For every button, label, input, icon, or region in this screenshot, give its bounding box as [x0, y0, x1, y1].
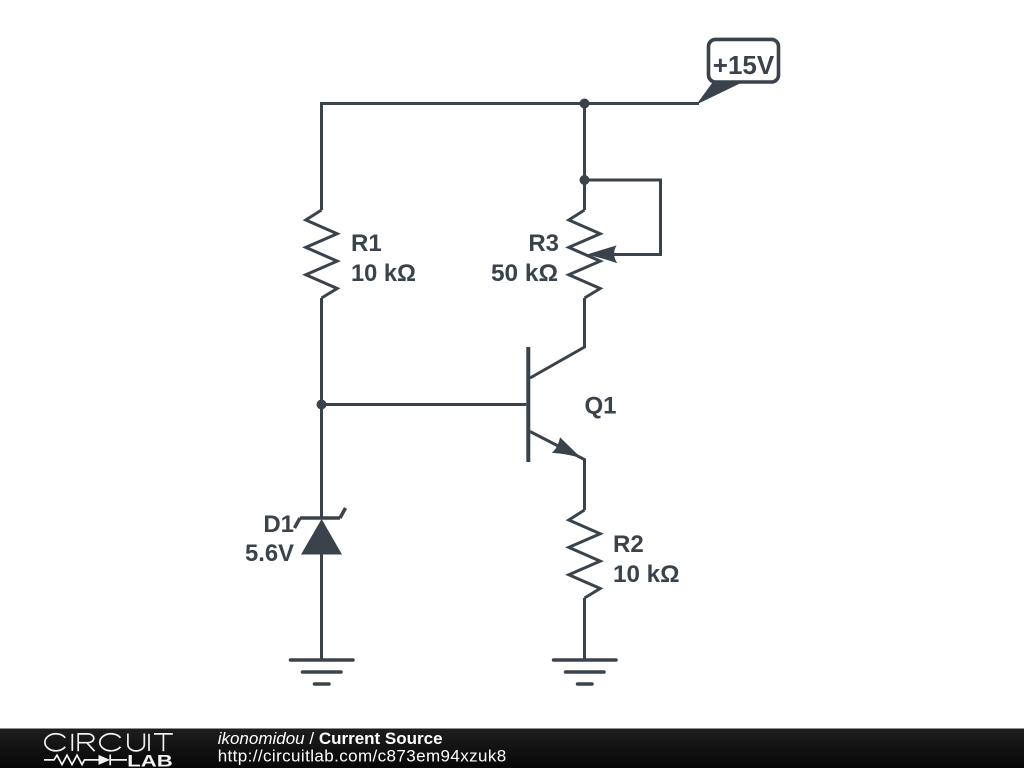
resistor R1: [306, 210, 337, 298]
wire left branch down to R1: [320, 102, 323, 210]
svg-text:R1: R1: [351, 230, 382, 257]
svg-text:D1: D1: [263, 511, 294, 538]
wire R3 wiper loop: [585, 180, 661, 255]
logo motif wire resistor diode: [44, 755, 127, 766]
wire R3 top lead: [583, 180, 586, 210]
svg-text:R3: R3: [528, 230, 559, 257]
node junction top rail: [580, 99, 590, 109]
ground right: [554, 660, 617, 684]
node base junction: [317, 400, 327, 410]
resistor R2: [569, 510, 600, 598]
wire Q1 emitter to R2: [530, 432, 585, 511]
wire R1 bottom to zener D1: [320, 298, 323, 518]
wire R2 bottom to ground: [583, 598, 586, 660]
transistor Q1: [528, 347, 581, 462]
wire D1 anode to ground: [320, 555, 323, 661]
wire top rail to R3 top node: [583, 104, 586, 181]
svg-text:LAB: LAB: [127, 751, 173, 768]
wire R3 bottom to Q1 collector: [530, 298, 585, 378]
power flag +15V: [696, 39, 779, 105]
wire top rail: [322, 102, 700, 105]
logo CIRCUIT: [45, 734, 173, 752]
svg-text:ikonomidou / Current Source: ikonomidou / Current Source: [218, 729, 443, 748]
node R3 top junction: [580, 175, 590, 185]
potentiometer R3: [569, 210, 618, 298]
svg-text:Q1: Q1: [585, 393, 617, 420]
svg-text:10 kΩ: 10 kΩ: [351, 260, 416, 287]
wire base wire from node to Q1: [322, 403, 527, 406]
svg-text:5.6V: 5.6V: [245, 540, 294, 567]
footer bar: [0, 729, 1024, 768]
svg-text:10 kΩ: 10 kΩ: [613, 561, 680, 588]
svg-text:http://circuitlab.com/c873em94: http://circuitlab.com/c873em94xzuk8: [218, 747, 507, 766]
svg-text:+15V: +15V: [713, 50, 775, 80]
ground left: [291, 660, 354, 684]
zener diode D1: [295, 508, 346, 555]
svg-text:50 kΩ: 50 kΩ: [491, 260, 558, 287]
svg-text:R2: R2: [613, 531, 644, 558]
